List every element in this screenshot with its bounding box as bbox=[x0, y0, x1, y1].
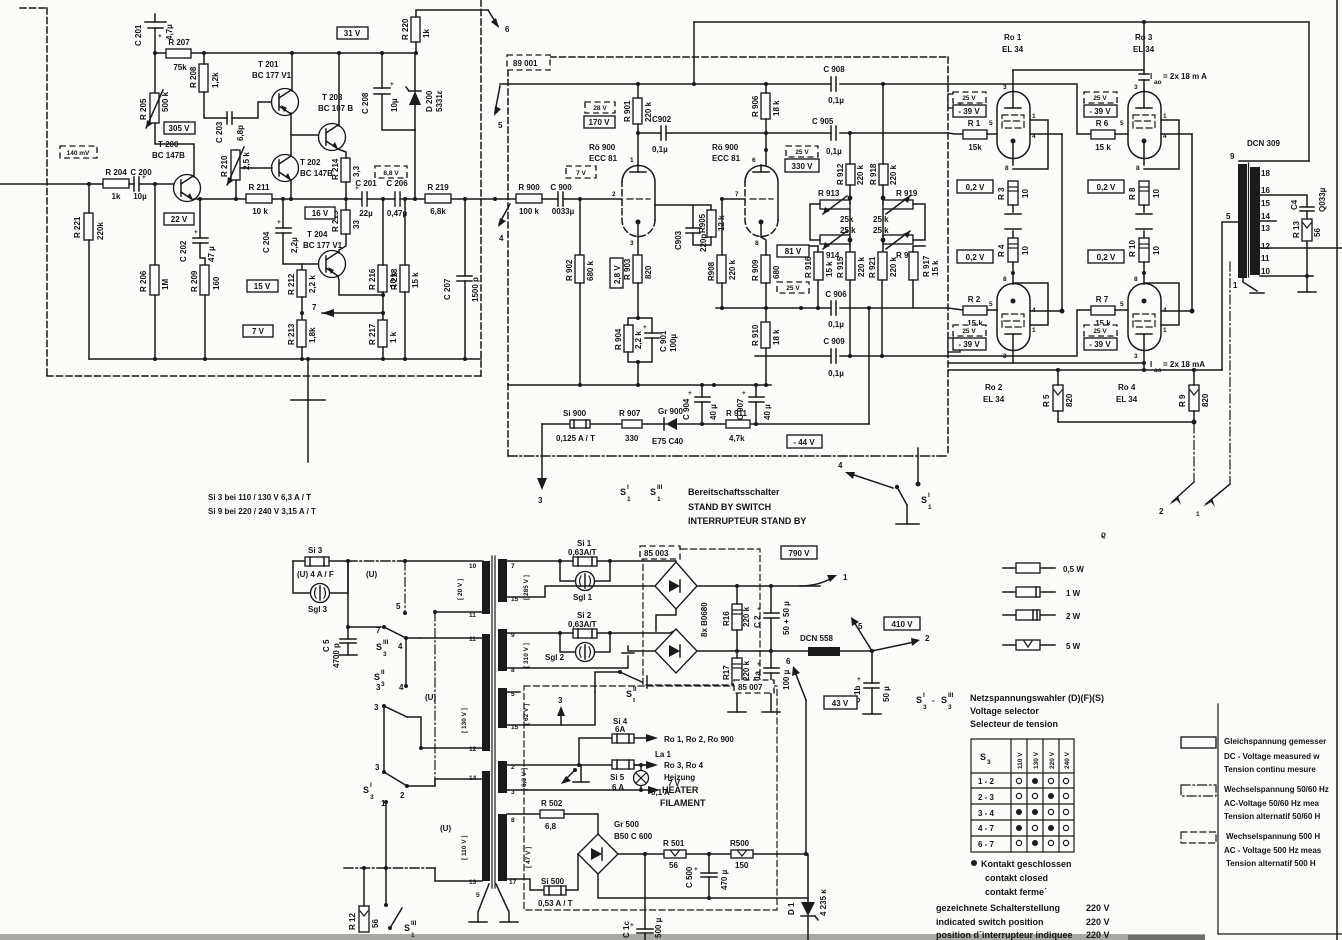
wires C903/R905 bbox=[655, 205, 711, 245]
svg-text:10: 10 bbox=[1021, 246, 1030, 255]
wire T203 emitter to R214 bbox=[338, 149, 346, 158]
svg-text:1: 1 bbox=[843, 573, 848, 582]
svg-text:16 V: 16 V bbox=[312, 209, 329, 218]
wire T202 emitter down bbox=[290, 180, 292, 199]
svg-text:R 206: R 206 bbox=[139, 270, 148, 292]
node R908 bbox=[720, 306, 724, 310]
svg-text:+: + bbox=[390, 81, 394, 88]
svg-text:Ro 4: Ro 4 bbox=[1118, 383, 1136, 392]
primary tap labels bbox=[469, 563, 480, 899]
node R218 bbox=[403, 197, 407, 201]
svg-text:18 k: 18 k bbox=[772, 329, 781, 345]
linkage dashdot column bbox=[434, 612, 436, 786]
svg-text:I: I bbox=[370, 782, 372, 789]
svg-text:R 207: R 207 bbox=[168, 38, 190, 47]
resistor R17 bbox=[722, 658, 751, 684]
capacitor C901 bbox=[643, 324, 678, 352]
svg-text:7 V: 7 V bbox=[252, 327, 265, 336]
Iao text bottom bbox=[1150, 360, 1205, 374]
svg-text:+: + bbox=[757, 606, 761, 613]
svg-text:R 904: R 904 bbox=[614, 328, 623, 350]
svg-text:22 V: 22 V bbox=[171, 215, 188, 224]
svg-text:5: 5 bbox=[989, 120, 993, 127]
table header voltages bbox=[1017, 751, 1071, 769]
wire C1b leads + ground bbox=[871, 651, 873, 714]
svg-text:680 k: 680 k bbox=[586, 260, 595, 281]
svg-text:9: 9 bbox=[1230, 152, 1235, 161]
svg-text:R 900: R 900 bbox=[518, 183, 540, 192]
svg-text:2,2 k: 2,2 k bbox=[308, 275, 317, 293]
svg-text:3: 3 bbox=[1134, 84, 1138, 91]
node rail R213 bbox=[300, 357, 304, 361]
svg-text:R 909: R 909 bbox=[751, 259, 760, 281]
svg-text:1: 1 bbox=[627, 496, 631, 503]
svg-text:56: 56 bbox=[1313, 228, 1322, 237]
svg-text:25 V: 25 V bbox=[1093, 95, 1107, 102]
resistor R908 bbox=[707, 255, 737, 283]
contact 5 bbox=[396, 602, 407, 615]
svg-text:Sgl 3: Sgl 3 bbox=[308, 605, 328, 614]
svg-text:C 500: C 500 bbox=[685, 866, 694, 888]
preamp bottom rail bbox=[89, 358, 481, 360]
svg-text:DCN 558: DCN 558 bbox=[800, 634, 833, 643]
svg-text:3 - 4: 3 - 4 bbox=[978, 809, 995, 818]
svg-text:3: 3 bbox=[375, 763, 380, 772]
47V return line Si500 bbox=[507, 879, 544, 890]
svg-text:EL 34: EL 34 bbox=[1133, 45, 1155, 54]
resistor R916 bbox=[804, 252, 834, 280]
svg-text:240 V: 240 V bbox=[1064, 751, 1071, 769]
svg-text:R 212: R 212 bbox=[287, 273, 296, 295]
ground trafo left bbox=[469, 921, 487, 923]
svg-text:R 208: R 208 bbox=[189, 66, 198, 88]
svg-text:Rö 900: Rö 900 bbox=[589, 143, 616, 152]
89001 box left dashed bbox=[507, 70, 509, 456]
label 25V dashed Ro2 bbox=[953, 325, 986, 336]
C906 line bbox=[716, 307, 948, 309]
svg-text:C 207: C 207 bbox=[443, 278, 452, 300]
svg-text:(U): (U) bbox=[425, 693, 436, 702]
node heater x579 bbox=[577, 763, 581, 767]
svg-text:3: 3 bbox=[630, 240, 634, 247]
svg-text:0,1µ: 0,1µ bbox=[828, 320, 844, 329]
svg-text:La 1: La 1 bbox=[655, 750, 672, 759]
svg-text:S: S bbox=[916, 695, 922, 705]
node rail at C201 bbox=[153, 51, 157, 55]
wire R205 top to rail bbox=[154, 53, 156, 93]
svg-text:Wechselspannung 500 H: Wechselspannung 500 H bbox=[1226, 832, 1320, 841]
svg-text:R 13: R 13 bbox=[1292, 221, 1301, 238]
svg-text:I: I bbox=[928, 492, 930, 499]
svg-text:140 mV: 140 mV bbox=[67, 150, 90, 157]
tap11 line bbox=[435, 611, 482, 613]
svg-text:17: 17 bbox=[509, 879, 517, 886]
wire Si1 loop bbox=[560, 561, 610, 581]
potentiometer R205 bbox=[139, 90, 170, 128]
label 43V bbox=[824, 696, 857, 709]
wire contact1 down bbox=[385, 802, 387, 868]
svg-text:C 906: C 906 bbox=[825, 290, 847, 299]
svg-text:R 915: R 915 bbox=[836, 256, 845, 278]
node input bbox=[87, 182, 91, 186]
wire R906 leads bbox=[765, 84, 767, 165]
capacitor C903 bbox=[674, 228, 708, 252]
riser to Si4 bbox=[579, 738, 612, 765]
svg-text:indicated switch position: indicated switch position bbox=[936, 917, 1044, 927]
resistor R1 bbox=[963, 119, 987, 152]
resistor R2 bbox=[963, 295, 987, 328]
svg-text:S: S bbox=[650, 487, 656, 497]
svg-text:C 909: C 909 bbox=[823, 337, 845, 346]
connector box 16 upper bbox=[948, 94, 960, 108]
wire R216 bottom node bbox=[381, 293, 385, 297]
node R216 bbox=[381, 197, 385, 201]
resistor R500 bbox=[730, 839, 753, 870]
wire R12 top bbox=[363, 868, 365, 906]
svg-text:II: II bbox=[381, 669, 385, 676]
svg-text:15: 15 bbox=[1261, 199, 1270, 208]
trafo secondary bar bbox=[1250, 167, 1260, 275]
node ladder bbox=[816, 306, 820, 310]
285V winding line to Si1 bbox=[507, 560, 560, 562]
svg-text:Si 1: Si 1 bbox=[577, 539, 592, 548]
310V winding line to Si2 bbox=[507, 632, 560, 634]
capacitor C203 bbox=[215, 112, 245, 143]
svg-text:7: 7 bbox=[312, 303, 317, 312]
svg-text:contakt ferme´: contakt ferme´ bbox=[985, 887, 1047, 897]
resistor R211 bbox=[246, 183, 272, 216]
svg-text:13: 13 bbox=[1261, 224, 1270, 233]
svg-text:S: S bbox=[620, 487, 626, 497]
resistor R502 bbox=[540, 799, 564, 831]
svg-text:56: 56 bbox=[669, 861, 678, 870]
node rail R209 bbox=[203, 357, 207, 361]
85003 label box bbox=[640, 546, 680, 559]
label 02V Ro2 bbox=[957, 250, 993, 263]
svg-text:R 919: R 919 bbox=[896, 189, 918, 198]
svg-text:I: I bbox=[923, 692, 925, 699]
trafo primary bar bbox=[1238, 164, 1247, 278]
wire R212 top to base line bbox=[301, 264, 303, 270]
svg-text:III: III bbox=[411, 920, 417, 927]
svg-text:R 220: R 220 bbox=[401, 18, 410, 40]
svg-text:5: 5 bbox=[1226, 212, 1231, 221]
B+ line y370 bbox=[948, 369, 1222, 371]
svg-text:Si 9 bei 220 / 240 V 3,15: Si 9 bei 220 / 240 V 3,15 A / T bbox=[208, 507, 316, 516]
svg-text:C 1c: C 1c bbox=[622, 921, 631, 938]
tube Ro2 EL34 bbox=[983, 276, 1036, 404]
capacitor C204 bbox=[262, 219, 299, 253]
mains wire top bbox=[293, 560, 348, 562]
svg-text:220k: 220k bbox=[96, 222, 105, 240]
core line left bbox=[491, 556, 493, 888]
svg-text:(U): (U) bbox=[440, 824, 451, 833]
svg-text:R 12: R 12 bbox=[348, 913, 357, 930]
node pot a bbox=[848, 196, 853, 201]
table dots row5 bbox=[1016, 840, 1068, 846]
resistor R912 bbox=[836, 163, 865, 185]
89001 box right dashed bbox=[947, 57, 949, 456]
svg-text:0,2 V: 0,2 V bbox=[1097, 253, 1116, 262]
svg-text:47 µ: 47 µ bbox=[207, 246, 216, 262]
label -39V Ro4 bbox=[1084, 338, 1117, 350]
fuse Si500 bbox=[538, 877, 573, 908]
svg-text:4 - 7: 4 - 7 bbox=[978, 824, 995, 833]
node 410V bbox=[870, 649, 874, 653]
svg-text:BC 107 B: BC 107 B bbox=[318, 104, 353, 113]
svg-text:(U): (U) bbox=[366, 570, 377, 579]
wire R220 bottom to rail bbox=[415, 42, 417, 53]
wire R209 bottom bbox=[204, 295, 206, 359]
capacitor C1b bbox=[853, 676, 891, 703]
label 410V bbox=[884, 617, 920, 630]
svg-text:+: + bbox=[694, 866, 698, 873]
svg-text:0,5 W: 0,5 W bbox=[1063, 565, 1084, 574]
wire R215 bottom to T204 collector bbox=[339, 234, 346, 253]
preamp dashed border right bbox=[480, 0, 482, 376]
wattage legend 1W bbox=[1003, 587, 1081, 598]
grid line C905 to R1 bbox=[948, 133, 963, 134]
svg-text:470 µ: 470 µ bbox=[720, 869, 729, 890]
node rail gnd bbox=[306, 357, 310, 361]
svg-text:130 V: 130 V bbox=[1033, 751, 1040, 769]
capacitor C908 bbox=[823, 65, 845, 105]
svg-text:R 2: R 2 bbox=[968, 295, 981, 304]
svg-text:25k: 25k bbox=[840, 215, 854, 224]
wire bias to 3 arrow bbox=[541, 424, 543, 478]
wire input down to R221 and to rail bbox=[88, 184, 90, 213]
svg-text:BC 147B: BC 147B bbox=[152, 151, 185, 160]
resistor R901 bbox=[623, 98, 653, 124]
legend page border horizontal bbox=[1218, 933, 1342, 935]
node tap12 link bbox=[419, 746, 423, 750]
wire R5 leads bbox=[1057, 370, 1059, 422]
bottom row wire bbox=[344, 867, 435, 869]
svg-text:3: 3 bbox=[538, 496, 543, 505]
node pot d bbox=[881, 238, 886, 243]
svg-text:R17: R17 bbox=[722, 665, 731, 680]
ground R17 bbox=[728, 711, 746, 713]
svg-text:C902: C902 bbox=[652, 115, 672, 124]
resistor R215 bbox=[331, 210, 361, 234]
svg-text:Rö 900: Rö 900 bbox=[712, 143, 739, 152]
svg-text:7: 7 bbox=[376, 626, 381, 635]
preamp dashed border top-left stub bbox=[20, 7, 47, 9]
svg-text:11: 11 bbox=[1261, 254, 1270, 263]
fuse Si3 bbox=[305, 546, 329, 566]
node 7 arrow bbox=[312, 303, 383, 317]
svg-text:11: 11 bbox=[469, 612, 476, 619]
wire S3II to S3I bbox=[383, 706, 385, 772]
node B+ R5 bbox=[1056, 368, 1060, 372]
svg-text:100 k: 100 k bbox=[519, 207, 540, 216]
svg-text:T 204: T 204 bbox=[307, 230, 328, 239]
wire R212-R213 bbox=[301, 297, 303, 320]
legend dashdot box bbox=[1181, 785, 1329, 821]
top rail 31V bbox=[155, 52, 416, 54]
svg-text:Ro 1, Ro 2, Ro 900: Ro 1, Ro 2, Ro 900 bbox=[664, 735, 734, 744]
svg-text:8,8 V: 8,8 V bbox=[383, 170, 399, 177]
label 02V Ro3 bbox=[1088, 180, 1124, 193]
wire base node down to R206 bbox=[154, 184, 156, 265]
label 25V dashed Ro1 bbox=[953, 92, 986, 103]
wire R216-R217 bbox=[382, 292, 384, 320]
label 25V dashed Ro3 bbox=[1084, 92, 1117, 103]
svg-text:6 - 7: 6 - 7 bbox=[978, 840, 995, 849]
capacitor C5 bbox=[322, 639, 356, 668]
internal rail y84 bbox=[500, 83, 948, 85]
resistor R206 bbox=[139, 265, 170, 295]
svg-text:3,3: 3,3 bbox=[352, 165, 361, 177]
node C501 bbox=[643, 852, 647, 856]
wire T203 collector to rail bbox=[338, 53, 340, 126]
wire D200 stems bbox=[414, 53, 416, 130]
svg-text:R 902: R 902 bbox=[565, 259, 574, 281]
node R214 bbox=[344, 197, 348, 201]
node B+ R9 bbox=[1192, 368, 1196, 372]
wire T201 emitter to T202 collector bbox=[290, 113, 292, 158]
wire R910 bottom bbox=[765, 348, 767, 385]
winding label 20V bbox=[457, 579, 464, 600]
svg-text:1,2k: 1,2k bbox=[211, 72, 220, 88]
wires C4-R13 bbox=[1306, 211, 1308, 276]
svg-text:Si 3 bei 110 / 130 V 6,3: Si 3 bei 110 / 130 V 6,3 A / T bbox=[208, 493, 311, 502]
R4 link bar bbox=[1005, 229, 1021, 238]
node C204 bbox=[281, 197, 285, 201]
voltage label -44V bbox=[787, 435, 822, 448]
fuse Si5 bbox=[610, 760, 634, 792]
svg-text:2 - 3: 2 - 3 bbox=[978, 793, 995, 802]
node B+ x1144 bbox=[1142, 368, 1146, 372]
svg-text:220 V: 220 V bbox=[1086, 917, 1110, 927]
svg-text:DCN 309: DCN 309 bbox=[1247, 139, 1280, 148]
wire C203 to T201 base bbox=[232, 102, 272, 118]
switch S3-II bbox=[374, 669, 408, 717]
svg-text:0,2 V: 0,2 V bbox=[1097, 183, 1116, 192]
svg-text:2: 2 bbox=[925, 634, 930, 643]
wire R6 to pin5 bbox=[1115, 133, 1128, 135]
primary bar seg3 bbox=[482, 771, 490, 881]
svg-text:R 7: R 7 bbox=[1096, 295, 1109, 304]
svg-text:820: 820 bbox=[1201, 393, 1210, 407]
svg-text:25 V: 25 V bbox=[795, 149, 809, 156]
svg-text:Netzspannungswahler (D)(F)(S: Netzspannungswahler (D)(F)(S) bbox=[970, 693, 1104, 703]
vertical drop x694 to rail bbox=[693, 22, 695, 84]
node mains x405 bbox=[403, 559, 407, 563]
node grid junction bbox=[578, 197, 582, 201]
node R915 bottom bbox=[848, 354, 852, 358]
svg-text:R 213: R 213 bbox=[287, 323, 296, 345]
wire R902 bottom bbox=[579, 283, 581, 385]
diode Gr900 bbox=[652, 407, 684, 446]
resistor R219 bbox=[425, 183, 451, 216]
svg-text:25 k: 25 k bbox=[873, 226, 889, 235]
resistor R902 bbox=[565, 255, 595, 283]
svg-text:S: S bbox=[921, 495, 927, 505]
switch S3-III bbox=[376, 625, 408, 658]
resistor R9 bbox=[1178, 385, 1210, 411]
285V return line bbox=[507, 586, 656, 597]
svg-text:- 39 V: - 39 V bbox=[958, 107, 980, 116]
bottom scan band bbox=[0, 934, 1205, 940]
anode link line y68 bbox=[1013, 69, 1144, 71]
wire D1 bbox=[807, 854, 809, 940]
svg-text:2,2 k: 2,2 k bbox=[634, 331, 643, 349]
svg-text:330: 330 bbox=[625, 434, 639, 443]
43V rail bbox=[618, 853, 806, 855]
wire C5 node line bbox=[348, 561, 381, 627]
label 02V Ro1 bbox=[957, 180, 993, 193]
node R501-C500 bbox=[707, 852, 711, 856]
node tap10 bbox=[1305, 274, 1309, 278]
resistor R208 bbox=[189, 64, 220, 92]
310V return with link bar bbox=[507, 646, 655, 668]
wire C2 leads bbox=[770, 586, 772, 651]
svg-text:5: 5 bbox=[396, 602, 401, 611]
wire C201 to rail bbox=[154, 28, 156, 53]
svg-text:500 µ: 500 µ bbox=[654, 917, 663, 938]
svg-text:160: 160 bbox=[212, 276, 221, 290]
wire 62V to St1 bbox=[595, 672, 620, 692]
svg-text:85 003: 85 003 bbox=[644, 549, 669, 558]
voltage label 31V bbox=[337, 27, 368, 39]
svg-text:R 209: R 209 bbox=[190, 270, 199, 292]
svg-text:II: II bbox=[633, 686, 637, 693]
svg-text:3: 3 bbox=[948, 704, 952, 711]
svg-text:3: 3 bbox=[1134, 353, 1138, 360]
svg-text:BC 177 V1: BC 177 V1 bbox=[252, 71, 292, 80]
transistor T202 bbox=[272, 155, 334, 182]
resistor R6 bbox=[1091, 119, 1115, 152]
svg-text:89 001: 89 001 bbox=[513, 59, 538, 68]
svg-text:2,8 V: 2,8 V bbox=[613, 265, 622, 284]
node x1062 low bbox=[1060, 309, 1065, 314]
node 43V right bbox=[804, 852, 808, 856]
svg-text:25 V: 25 V bbox=[962, 328, 976, 335]
voltage label 305V bbox=[164, 122, 195, 134]
R10 link bar bbox=[1136, 229, 1152, 238]
label 790V bbox=[781, 546, 817, 559]
node C906 line bbox=[799, 306, 803, 310]
svg-text:R 217: R 217 bbox=[368, 323, 377, 345]
node rail at R208 bbox=[202, 51, 206, 55]
svg-text:R 221: R 221 bbox=[73, 216, 82, 238]
svg-text:0,2 V: 0,2 V bbox=[966, 253, 985, 262]
svg-text:C 5: C 5 bbox=[322, 639, 331, 652]
svg-text:R 218: R 218 bbox=[390, 268, 399, 290]
wire C904 stems bbox=[701, 385, 703, 424]
table dots row4 bbox=[1016, 825, 1069, 831]
node S1III bbox=[384, 903, 388, 907]
svg-text:220 k: 220 k bbox=[742, 660, 751, 681]
resistor R905 bbox=[698, 210, 726, 237]
wire Si2 loop bbox=[560, 633, 610, 652]
resistor R909 bbox=[751, 255, 781, 283]
resistor R917 bbox=[909, 252, 940, 280]
svg-text:7: 7 bbox=[735, 191, 739, 198]
wire R908 bottom to C906 line bbox=[721, 283, 723, 308]
svg-text:III: III bbox=[657, 484, 663, 491]
R3 link bar bbox=[1005, 205, 1021, 214]
svg-text:S: S bbox=[376, 642, 382, 652]
pin4 loop Ro1 bbox=[1013, 120, 1062, 169]
svg-text:110 V: 110 V bbox=[1017, 752, 1024, 769]
svg-text:EL 34: EL 34 bbox=[983, 395, 1005, 404]
tap 14-13 tick bbox=[1260, 220, 1276, 222]
measure dashdot drop 2 bbox=[1229, 262, 1231, 484]
svg-text:R 3: R 3 bbox=[997, 187, 1006, 200]
svg-text:2: 2 bbox=[612, 191, 616, 198]
